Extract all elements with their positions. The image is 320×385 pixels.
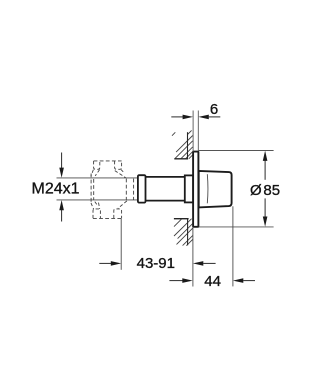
cap outline <box>199 171 232 208</box>
thread OD top line (M24x1 extension) <box>57 177 139 179</box>
valve body bottom-right facet ear (dashed) <box>114 209 122 218</box>
lower wall opening edge <box>174 218 189 220</box>
wall-side ring <box>185 175 193 202</box>
valve body bottom chamfer lines (dashed) <box>91 201 127 209</box>
svg-text:6: 6 <box>210 101 218 118</box>
svg-text:M24x1: M24x1 <box>31 180 79 197</box>
valve body top chamfer lines (dashed) <box>91 170 126 178</box>
valve body right edge (dashed) <box>126 179 133 200</box>
dimension 6 left extension line <box>192 111 194 152</box>
dimension D85 down arrow <box>263 198 268 226</box>
valve body bottom-left facet ear (dashed) <box>93 209 100 218</box>
svg-text:43-91: 43-91 <box>137 255 175 272</box>
extension tube top edge <box>146 176 186 178</box>
svg-text:85: 85 <box>263 182 280 199</box>
lock nut ring on tube <box>138 175 146 202</box>
dimension 44 right extension line <box>232 206 234 286</box>
dimension D85 top extension line <box>199 150 274 152</box>
dimension 44 left arrow <box>169 278 192 283</box>
dimension D85 bottom extension line <box>199 226 274 228</box>
svg-text:44: 44 <box>204 273 221 290</box>
dimension 6 right arrow <box>198 115 220 120</box>
wall face extension line <box>192 227 194 287</box>
dimension 6 right extension line <box>197 111 199 152</box>
valve body bottom edge (dashed) <box>93 217 122 219</box>
upper wall layer line <box>187 132 189 159</box>
dimension M24x1 down arrow <box>59 153 64 178</box>
lower wall hatching <box>174 219 193 246</box>
dimension 43-91 left extension line <box>120 219 122 270</box>
valve body top-right facet ear (dashed) <box>115 161 122 169</box>
valve body top-left facet ear (dashed) <box>94 161 100 169</box>
svg-text:Ø: Ø <box>250 182 262 199</box>
escutcheon plate <box>193 152 198 227</box>
thread OD bottom line (M24x1 extension) <box>57 199 139 201</box>
dimension M24x1 up arrow <box>59 200 64 222</box>
dimension 43-91 right arrow <box>193 261 216 266</box>
upper wall opening edge <box>174 158 188 160</box>
dimension 6 left arrow <box>171 115 193 120</box>
dimension D85 up arrow <box>263 151 268 180</box>
dimension 44 right arrow <box>233 278 255 283</box>
valve body left edge (dashed) <box>91 174 94 204</box>
upper wall hatching <box>172 130 193 158</box>
dimension 43-91 left arrow <box>99 261 121 266</box>
valve body top edge (dashed) <box>94 160 122 162</box>
extension tube bottom edge <box>146 200 186 202</box>
lower wall layer line <box>187 219 189 246</box>
cap transition arc <box>206 174 209 203</box>
